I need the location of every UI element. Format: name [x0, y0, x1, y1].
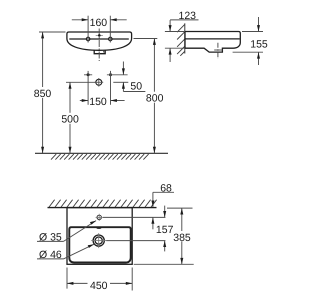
extension through marker down: [110, 71, 112, 105]
centerline front view: [98, 29, 100, 62]
dimension line 385: [181, 208, 183, 264]
drain center mark front: [96, 79, 102, 85]
dimension 155 up arrow: [258, 52, 260, 65]
floor hatching: [51, 154, 149, 160]
basin side profile: [185, 32, 240, 53]
basin side rim line: [185, 38, 240, 40]
svg-text:157: 157: [156, 224, 174, 236]
svg-text:150: 150: [89, 96, 107, 108]
extension line 800 top: [134, 38, 158, 40]
drain tick side: [214, 49, 222, 51]
svg-text:Ø 46: Ø 46: [39, 249, 62, 261]
extension 155 bottom: [233, 51, 263, 53]
dimension line 850: [42, 32, 44, 153]
extension 385 bottom: [134, 263, 194, 265]
left fixing hole front: [86, 37, 89, 40]
extension line 850 top: [39, 31, 66, 33]
svg-text:160: 160: [90, 17, 108, 29]
wall hatching plan: [49, 200, 157, 207]
extension from cross down: [87, 71, 89, 105]
drain center extension line: [66, 81, 96, 83]
basin rim line: [69, 38, 129, 40]
leader 50: [123, 91, 145, 93]
label 800: [145, 92, 165, 103]
leader diameter 46: [37, 258, 64, 260]
supply hole marker: [109, 73, 112, 76]
dimension 155 down arrow: [258, 17, 260, 32]
wall line plan: [48, 207, 157, 209]
faucet hole plan: [97, 215, 101, 219]
svg-text:Ø 35: Ø 35: [39, 231, 62, 243]
bowl plan rounded rect: [69, 227, 130, 262]
wall mounting cross left: [84, 74, 92, 76]
wall face line side view: [184, 23, 186, 53]
overflow slot: [96, 227, 101, 229]
dimension 160 left arrow: [72, 19, 88, 21]
extension 155 top: [242, 31, 263, 33]
extension line 160 right: [109, 16, 111, 43]
leader diameter 35: [37, 240, 64, 242]
extension 123 bottom (underside extended left): [165, 47, 185, 49]
svg-text:50: 50: [130, 81, 142, 93]
basin plan outer rectangle: [67, 208, 132, 265]
extension 50 top (from marker right): [107, 74, 128, 76]
svg-text:850: 850: [34, 88, 52, 100]
svg-text:155: 155: [250, 38, 268, 50]
right fixing hole front: [109, 37, 112, 40]
extension 450 right: [131, 268, 133, 291]
dimension 150 left arrow: [80, 100, 88, 102]
leader 123: [170, 19, 198, 21]
extension line 160 left: [87, 16, 89, 43]
label 385: [173, 231, 192, 241]
dimension 68: leader and arrows: [153, 191, 174, 193]
drain extension line right: [106, 240, 165, 242]
faucet hole cross front: [96, 34, 103, 36]
dimension 160 right arrow: [110, 19, 126, 21]
extension 385 top: [167, 207, 193, 209]
wall hatching side view: [177, 25, 185, 56]
dimension line 800: [153, 39, 155, 154]
dimension 150 right arrow: [111, 100, 125, 102]
drain spigot front: [94, 50, 105, 54]
drain plan outer circle: [93, 235, 104, 246]
svg-text:68: 68: [160, 182, 172, 194]
dimension 50 arrows: [122, 62, 124, 75]
svg-text:500: 500: [61, 114, 79, 126]
label 500: [61, 113, 81, 124]
dimension 157 arrows: [164, 206, 166, 218]
svg-text:385: 385: [173, 232, 191, 244]
extension 450 left: [66, 268, 68, 289]
svg-text:450: 450: [90, 280, 108, 292]
dimension line 450: [67, 282, 88, 284]
floor line: [35, 152, 168, 154]
dimension line 500: [69, 82, 71, 153]
svg-text:800: 800: [146, 93, 164, 105]
svg-text:123: 123: [179, 10, 197, 22]
basin front outline: [67, 32, 132, 50]
drain plan inner circle: [95, 237, 102, 244]
label 850: [33, 87, 53, 98]
faucet hole extension line right: [103, 216, 166, 218]
drain centerline side: [217, 43, 219, 59]
extension 50 bottom: [113, 81, 128, 83]
dimension 123 down arrow: [169, 20, 171, 31]
dimension 123 up arrow: [169, 48, 171, 62]
extension 123 top (basin top extended left): [165, 31, 185, 33]
